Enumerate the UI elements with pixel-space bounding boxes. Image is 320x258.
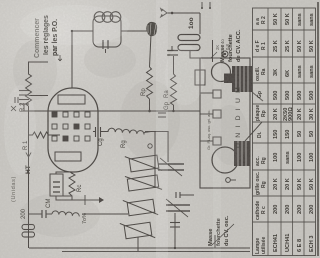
arrow masse osc leader bbox=[212, 224, 234, 245]
wire top horizontal rail bbox=[28, 106, 30, 248]
wire R2 to tube bbox=[29, 62, 49, 72]
trimmer pivot circle bbox=[148, 144, 152, 148]
wire horizontal to trimmers bbox=[154, 132, 156, 189]
table column lines bbox=[253, 30, 316, 222]
antenna capacitor 100 bbox=[178, 35, 200, 51]
leader line from IF block bbox=[252, 92, 263, 101]
label R2 bbox=[20, 102, 26, 112]
table bbox=[253, 8, 316, 256]
second left rail bbox=[62, 251, 250, 253]
label Ra bbox=[164, 90, 170, 98]
capacitor near Ra bbox=[167, 46, 178, 55]
label CM bbox=[46, 199, 52, 208]
wire Ra to cap bbox=[173, 56, 175, 74]
text masse fourchette de CV ACC bbox=[220, 29, 242, 62]
capacitor CM chain bbox=[34, 210, 52, 218]
wire trimmer link bbox=[137, 237, 139, 252]
wire bus to Ra bbox=[173, 105, 175, 111]
wire cap to block bbox=[190, 51, 200, 59]
wire antenna down bbox=[172, 12, 200, 14]
wire T3 top to CM chain bbox=[124, 213, 128, 215]
variable capacitor CV2 bbox=[166, 199, 190, 217]
label Sg bbox=[121, 140, 127, 148]
terminal square a bbox=[213, 137, 221, 145]
trimmer T3 bbox=[123, 196, 158, 219]
tiny cap mark top left bbox=[15, 97, 18, 103]
wire CM chain down bbox=[82, 213, 128, 215]
wire rail end turn bbox=[214, 235, 216, 248]
wire tube to Cg bbox=[93, 131, 96, 133]
coil osc small bbox=[52, 211, 79, 217]
terminal square c bbox=[213, 90, 221, 98]
resistor Rc horizontal bbox=[69, 172, 75, 196]
junction dot bus top bbox=[111, 110, 113, 112]
wire bus top to caps bbox=[23, 104, 25, 111]
wire branch to CV1 bbox=[155, 132, 168, 163]
gang circle 1 blob bbox=[224, 74, 233, 84]
tiny cross mark bbox=[11, 106, 16, 111]
label Rp bbox=[141, 88, 147, 96]
trimmer T2 bbox=[125, 172, 162, 195]
electrolytic capacitor cathode bbox=[50, 174, 63, 196]
wire pair left join bbox=[56, 196, 72, 200]
label mod bbox=[82, 213, 88, 224]
IF block hatch lines bbox=[236, 66, 248, 92]
table data rows bbox=[273, 13, 315, 252]
trimmer T4 bbox=[120, 219, 155, 242]
gang circle 2 bbox=[212, 147, 238, 173]
table outline bbox=[253, 8, 316, 256]
resistor R2 in series top rail bbox=[26, 70, 32, 106]
caption (suite) top-left bbox=[11, 176, 17, 202]
arrow masse acc bbox=[211, 52, 217, 58]
terminal stubs bbox=[200, 93, 213, 141]
left vertical rail bbox=[29, 247, 250, 249]
capacitor small mid bbox=[176, 192, 194, 198]
wire Rg bottom junction bbox=[145, 131, 155, 133]
label R1 bbox=[23, 140, 29, 150]
label HT bbox=[25, 165, 32, 174]
text masse fourchette du CV osc bbox=[208, 215, 230, 246]
blob hatch bbox=[148, 23, 156, 35]
hatch lines left block bbox=[238, 141, 246, 166]
wire box bottom to masse blob bbox=[121, 30, 150, 32]
bus vertical line bbox=[22, 110, 200, 112]
table header text bbox=[255, 16, 267, 254]
annotation: Commencer les reglages par les P.O. bbox=[34, 15, 59, 58]
small arrow under annotation bbox=[58, 55, 62, 61]
ground arrow bbox=[85, 195, 104, 205]
tube V1 envelope bbox=[48, 88, 98, 172]
tube slot right bbox=[58, 95, 85, 104]
label Cg bbox=[98, 138, 104, 146]
resistor Rp horizontal bbox=[147, 67, 153, 99]
wire CV2 to rail bbox=[174, 213, 176, 248]
capacitor 200 in series bbox=[22, 225, 35, 238]
wire Rp to blob bbox=[150, 34, 152, 67]
wire antenna to cap bbox=[199, 13, 201, 34]
antenna symbol bbox=[160, 7, 174, 18]
coil Rg vertical bbox=[100, 128, 151, 134]
junction dot Ra bbox=[172, 110, 174, 112]
label Gp bbox=[164, 101, 170, 110]
variable capacitor CV1 bbox=[158, 158, 184, 176]
page bottom border bbox=[317, 2, 319, 256]
coil L1 loops on right edge bbox=[94, 12, 121, 23]
block inner rect top bbox=[195, 70, 205, 85]
padder capacitor in box bbox=[103, 40, 108, 53]
capacitor Cg bbox=[96, 127, 101, 137]
tiny value marks bbox=[215, 39, 230, 50]
capacitor pair on bus top bbox=[19, 91, 29, 105]
wire tube right to osc box bbox=[72, 31, 93, 88]
wire pair to arrow bbox=[72, 199, 85, 201]
CV block outline bbox=[200, 58, 250, 188]
label 200 bbox=[21, 208, 27, 219]
oscillator box L1 bbox=[93, 16, 121, 47]
junction dot bus bbox=[148, 110, 151, 113]
resistor Ra horizontal bbox=[171, 74, 177, 105]
masse blob (ground scribble) bbox=[146, 22, 157, 36]
arrow HT bbox=[26, 144, 31, 157]
resistor R1 vertical bbox=[29, 132, 53, 138]
label UNIDIUM bbox=[235, 85, 242, 148]
terminal circle bbox=[222, 51, 228, 57]
junction dot rail CV2 bbox=[174, 247, 176, 249]
label 100 bbox=[188, 17, 195, 29]
table row lines bbox=[268, 8, 304, 256]
trimmer T1 bbox=[125, 152, 162, 176]
leader line from block bbox=[245, 122, 262, 141]
paper mottling smudges bbox=[13, 40, 248, 237]
junction dot bbox=[71, 30, 73, 32]
capacitor small on CV2 wire bbox=[170, 223, 180, 228]
tube slot left bbox=[55, 152, 81, 161]
gang circle 1 bbox=[212, 63, 231, 82]
IF hatched block right bbox=[232, 66, 252, 92]
tiny pin text row bbox=[206, 110, 211, 150]
wire caps to tube top bbox=[29, 95, 48, 97]
wire Rp to bus bbox=[149, 99, 151, 111]
hatched block left bbox=[234, 141, 250, 166]
terminal wire above block bbox=[212, 40, 214, 62]
tiny top ticks bbox=[201, 2, 211, 9]
label Rc bbox=[77, 185, 83, 192]
small circle pin bbox=[226, 178, 236, 183]
capacitor Gp on bus bbox=[158, 113, 166, 117]
wire CM top bbox=[29, 213, 35, 215]
wire tube left to pair bbox=[56, 171, 72, 173]
terminal square b bbox=[213, 110, 221, 118]
paper crease pale streak bbox=[156, 0, 168, 258]
tube pin squares bbox=[52, 112, 90, 141]
wire pair right join bbox=[56, 172, 72, 174]
wire below R1 bbox=[52, 134, 60, 136]
